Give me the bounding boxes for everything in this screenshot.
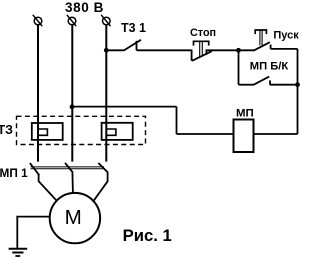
wire to МП Б/К contact xyxy=(239,84,255,86)
wire coil left lead xyxy=(177,133,234,135)
start button contact Пуск (normally open) xyxy=(254,42,270,50)
svg-text:Стоп: Стоп xyxy=(190,27,216,39)
heater element 2 body xyxy=(102,123,133,140)
wire coil right lead xyxy=(254,133,298,135)
wire phase L2 vertical xyxy=(71,25,73,162)
start button actuator xyxy=(255,30,266,45)
wire phase L1 vertical xyxy=(37,25,39,162)
terminal L2 xyxy=(67,15,76,26)
node on L3 to control circuit xyxy=(104,48,109,53)
svg-text:МП Б/К: МП Б/К xyxy=(250,60,289,72)
svg-text:380 В: 380 В xyxy=(65,0,104,15)
node after Стоп xyxy=(236,48,241,53)
wire Пуск to right rail xyxy=(271,48,298,50)
wire ТЗ1 to Стоп xyxy=(137,49,193,51)
node on L2 xyxy=(70,104,75,109)
thermal relay contact ТЗ 1 xyxy=(124,40,141,51)
svg-text:МП 1: МП 1 xyxy=(0,166,28,180)
svg-text:Рис. 1: Рис. 1 xyxy=(123,226,172,245)
wire node to Пуск xyxy=(239,49,255,51)
wire motor to ground xyxy=(17,217,50,249)
wire Стоп to node xyxy=(206,49,239,51)
terminal L1 xyxy=(33,15,42,26)
heater element 1 body xyxy=(32,123,63,140)
right rail vertical wire xyxy=(297,49,299,134)
contactor linkage line upper xyxy=(31,166,105,168)
terminal L3 xyxy=(101,15,110,26)
auxiliary contact МП Б/К (normally open) xyxy=(254,77,270,85)
svg-text:Т3 1: Т3 1 xyxy=(121,21,146,35)
contactor main contact МП1 pole 2 xyxy=(65,163,73,193)
heater element 1 hook xyxy=(38,129,47,135)
svg-text:МП: МП xyxy=(236,108,254,120)
wire L3 to ТЗ1 contact xyxy=(106,49,124,51)
wire МП Б/К to right rail xyxy=(270,84,298,86)
stop button actuator xyxy=(194,41,209,56)
wire node down to МП Б/К branch xyxy=(238,50,240,84)
stop button contact Стоп (normally closed) xyxy=(192,50,212,61)
wire phase L3 vertical xyxy=(105,25,107,162)
heater element 2 hook xyxy=(106,129,116,135)
contactor linkage line lower xyxy=(31,168,105,170)
node on right rail xyxy=(295,82,300,87)
svg-text:Пуск: Пуск xyxy=(273,29,299,41)
contactor main contact МП1 pole 1 xyxy=(30,163,57,201)
wire return to phase L2 xyxy=(72,106,177,108)
thermal relay ТЗ dashed enclosure xyxy=(17,116,146,144)
contactor main contact МП1 pole 3 xyxy=(94,163,108,201)
contactor coil МП xyxy=(234,120,254,153)
motor M xyxy=(50,193,100,243)
svg-text:М: М xyxy=(65,206,82,229)
ground symbol xyxy=(9,249,28,256)
svg-text:ТЗ: ТЗ xyxy=(0,123,13,137)
wire return riser xyxy=(176,107,178,134)
